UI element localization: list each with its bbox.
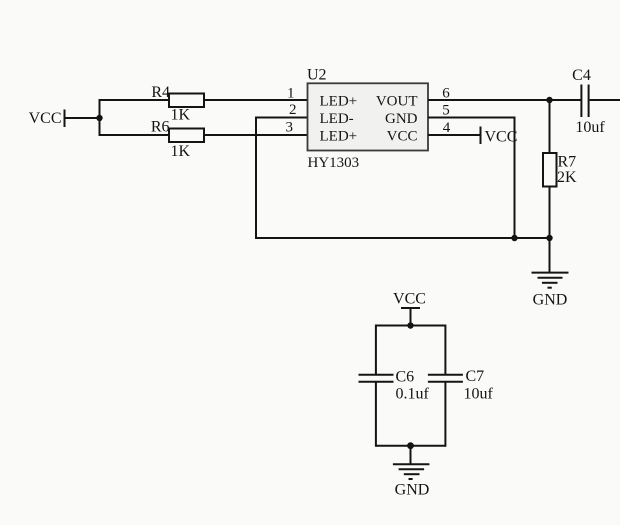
pin number 1 bbox=[287, 86, 295, 102]
wire rail to ground (bottom) bbox=[410, 446, 412, 465]
svg-text:3: 3 bbox=[286, 120, 294, 136]
capacitor C4 10uf bbox=[572, 67, 605, 136]
svg-text:10uf: 10uf bbox=[464, 386, 494, 403]
svg-text:LED+: LED+ bbox=[320, 94, 358, 110]
ground GND (right) bbox=[532, 273, 569, 309]
wire bottom rail bbox=[256, 237, 550, 239]
svg-text:C4: C4 bbox=[572, 67, 591, 84]
pin number 3 bbox=[286, 120, 294, 136]
wire pin 2 down to bottom rail bbox=[256, 118, 308, 240]
wire VCC branch vertical bbox=[99, 99, 101, 136]
wire C4 out to edge bbox=[590, 99, 620, 101]
wire R7 to bottom rail bbox=[549, 187, 551, 239]
resistor R7 2K bbox=[543, 153, 577, 187]
wire top rail (decoupling) bbox=[376, 325, 446, 327]
junction node GND rail bbox=[407, 442, 414, 449]
svg-text:LED+: LED+ bbox=[320, 129, 358, 145]
wire rail to ground bbox=[549, 238, 551, 272]
wire C6 bottom bbox=[375, 382, 377, 447]
power flag VCC (pin 4) bbox=[481, 127, 518, 146]
svg-text:R4: R4 bbox=[151, 84, 170, 101]
junction node R7 / rail bbox=[546, 235, 552, 241]
svg-text:GND: GND bbox=[385, 111, 418, 127]
wire node to C4 bbox=[550, 99, 581, 101]
ground GND (bottom) bbox=[393, 464, 430, 498]
junction node VCC rail bbox=[407, 322, 413, 328]
power flag VCC (decoupling pair) bbox=[393, 291, 426, 327]
svg-text:5: 5 bbox=[442, 103, 450, 119]
resistor R6 1K bbox=[151, 119, 204, 161]
svg-text:1K: 1K bbox=[171, 143, 191, 160]
svg-text:2K: 2K bbox=[557, 169, 577, 186]
wire C7 bottom bbox=[444, 382, 446, 447]
svg-text:2: 2 bbox=[289, 102, 297, 118]
svg-text:LED-: LED- bbox=[320, 111, 354, 127]
wire C6 top bbox=[375, 325, 377, 375]
junction node pin5 / rail bbox=[511, 235, 517, 241]
wire R6 to pin 3 bbox=[204, 134, 308, 136]
junction node VCC bbox=[96, 115, 102, 121]
wire node to R4 bbox=[100, 99, 170, 101]
wire node to R6 bbox=[100, 134, 170, 136]
svg-text:C6: C6 bbox=[396, 369, 415, 386]
svg-text:4: 4 bbox=[443, 120, 451, 136]
pin number 6 bbox=[442, 86, 450, 102]
resistor R4 1K bbox=[151, 84, 204, 124]
pin number 4 bbox=[443, 120, 451, 136]
svg-text:C7: C7 bbox=[466, 368, 485, 385]
svg-text:VCC: VCC bbox=[29, 110, 62, 127]
svg-text:VOUT: VOUT bbox=[376, 94, 418, 110]
wire C7 top bbox=[444, 325, 446, 375]
svg-text:R6: R6 bbox=[151, 119, 170, 136]
svg-text:6: 6 bbox=[442, 86, 450, 102]
svg-text:VCC: VCC bbox=[393, 291, 426, 308]
svg-text:GND: GND bbox=[533, 292, 568, 309]
wire pin 4 to VCC flag bbox=[428, 134, 481, 136]
wire bottom rail (decoupling) bbox=[376, 445, 446, 447]
svg-text:VCC: VCC bbox=[485, 129, 518, 146]
svg-text:1K: 1K bbox=[171, 107, 191, 124]
capacitor C6 0.1uf bbox=[359, 369, 430, 403]
wire node to R7 bbox=[549, 100, 551, 153]
svg-text:0.1uf: 0.1uf bbox=[396, 386, 430, 403]
svg-text:10uf: 10uf bbox=[575, 119, 605, 136]
IC U2 HY1303 bbox=[307, 67, 428, 172]
pin number 5 bbox=[442, 103, 450, 119]
wire VCC flag to node bbox=[65, 117, 100, 119]
wire pin 5 down to bottom rail bbox=[428, 118, 515, 239]
wire R4 to pin 1 bbox=[204, 99, 308, 101]
svg-text:1: 1 bbox=[287, 86, 295, 102]
capacitor C7 10uf bbox=[428, 368, 494, 403]
svg-text:R7: R7 bbox=[558, 154, 577, 171]
junction node VOUT bbox=[546, 97, 552, 103]
svg-text:U2: U2 bbox=[307, 67, 327, 84]
wire pin 6 to node bbox=[428, 99, 550, 101]
svg-text:VCC: VCC bbox=[387, 129, 418, 145]
pin number 2 bbox=[289, 102, 297, 118]
svg-text:GND: GND bbox=[395, 482, 430, 499]
svg-text:HY1303: HY1303 bbox=[308, 155, 360, 171]
power flag VCC (left) bbox=[29, 110, 65, 128]
